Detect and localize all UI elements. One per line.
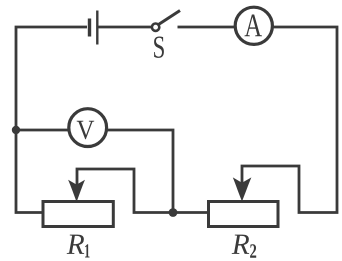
wire: battery positive to switch — [99, 26, 153, 29]
junction node on bottom middle wire — [169, 208, 178, 217]
switch S: pivot circle — [152, 24, 159, 31]
wire: switch to ammeter to top-right corner, down right side, to R2 slider jog — [178, 27, 338, 213]
battery: long (positive) plate — [96, 11, 98, 45]
label V (voltmeter) — [77, 121, 94, 139]
label R1: subscript 1 — [85, 244, 89, 257]
wire: left loop from R1 left terminal up and along top to battery — [16, 27, 87, 213]
wire: voltmeter branch from left wire to middle vertical — [16, 130, 173, 213]
junction node on left wire at voltmeter branch — [12, 126, 20, 134]
label A (ammeter) — [245, 15, 263, 37]
switch S: lever arm — [158, 11, 180, 25]
rheostat R2: slider arrowhead — [233, 177, 252, 201]
voltmeter V: circle — [69, 109, 107, 147]
label R1: italic R — [67, 235, 84, 254]
wire: R1 slider jog and middle bottom wire to R2 — [77, 169, 209, 213]
label R2: italic R — [232, 235, 249, 254]
rheostat R1: slider arrowhead — [68, 180, 85, 202]
label R2: subscript 2 — [250, 244, 256, 257]
label S (switch) — [154, 37, 164, 58]
rheostat R2: resistor box — [209, 202, 279, 227]
ammeter A: circle — [235, 7, 272, 44]
battery: short (negative) plate — [88, 19, 91, 37]
rheostat R1: resistor box — [43, 202, 113, 227]
